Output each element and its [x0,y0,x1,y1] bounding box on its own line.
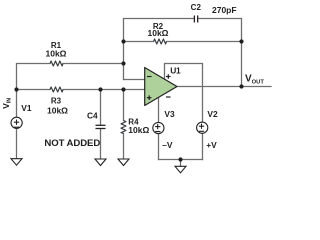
wire R4 bottom [123,134,125,160]
resistor R3 [50,87,63,92]
op-amp U1 body [145,68,177,106]
junction node R2 left [121,39,125,43]
capacitor C4 [96,125,106,128]
svg-text:R3: R3 [51,96,62,105]
wire supply bottom rail [159,159,203,161]
wire op-amp V- supply [158,97,160,122]
junction node R2 right [239,39,243,43]
op-amp V- pin label [166,96,171,98]
svg-text:C2: C2 [191,3,202,12]
resistor R4 [121,121,126,134]
wire V1 bottom [16,128,18,158]
junction node R1 right [121,61,125,65]
svg-text:VIN: VIN [1,98,13,109]
wire supply ground stub [180,160,182,167]
junction node C4 [98,87,102,91]
svg-text:C4: C4 [87,110,98,120]
svg-text:270pF: 270pF [212,5,237,15]
wire R2 branch left [124,41,154,43]
wire V1 top [16,90,18,118]
capacitor C2 [194,16,197,23]
wire R3 right / non-inverting input [63,89,145,91]
op-amp inverting input label [147,76,152,78]
ground (V1) [11,159,22,166]
source V2 [197,122,208,133]
wire C2 top branch [124,19,195,80]
svg-text:10kΩ: 10kΩ [148,28,169,38]
svg-text:U1: U1 [170,65,181,75]
op-amp non-inverting input label [147,95,152,100]
junction node supply ground [178,157,182,161]
svg-text:V3: V3 [164,109,175,119]
ground (R4) [118,159,129,166]
svg-text:VOUT: VOUT [245,74,264,86]
svg-text:10kΩ: 10kΩ [46,49,67,59]
svg-text:V1: V1 [21,103,32,113]
svg-text:10kΩ: 10kΩ [128,125,149,135]
wire C4 top [100,90,102,126]
wire R1 left [17,64,51,90]
resistor R1 [50,61,63,66]
wire C2 right to output [198,19,242,87]
wire R4 top [123,90,125,121]
svg-text:–V: –V [162,140,173,150]
wire R3 left [17,89,51,91]
ground (C4) [95,159,106,166]
junction node R4 [121,87,125,91]
svg-text:10kΩ: 10kΩ [47,105,68,115]
ground (supplies) [175,166,186,173]
source V1 [11,117,22,128]
resistor R2 [154,39,167,44]
wire inverting input [124,79,145,81]
wire R1 right [63,63,124,65]
junction node VOUT [239,84,243,88]
svg-text:+V: +V [206,140,217,150]
wire C4 bottom [100,129,102,159]
op-amp V+ pin label [166,74,171,79]
source V3 [153,122,164,133]
wire V2 bottom [202,133,204,159]
svg-text:V2: V2 [207,109,218,119]
wire V3 bottom [158,134,160,160]
resistor zigzags (dark component strokes) [50,39,167,134]
junction node VIN [14,87,18,91]
wire output [177,86,271,88]
svg-text:NOT ADDED: NOT ADDED [44,138,100,149]
wire R2 branch right [167,41,242,43]
wire op-amp V+ supply [165,64,203,123]
